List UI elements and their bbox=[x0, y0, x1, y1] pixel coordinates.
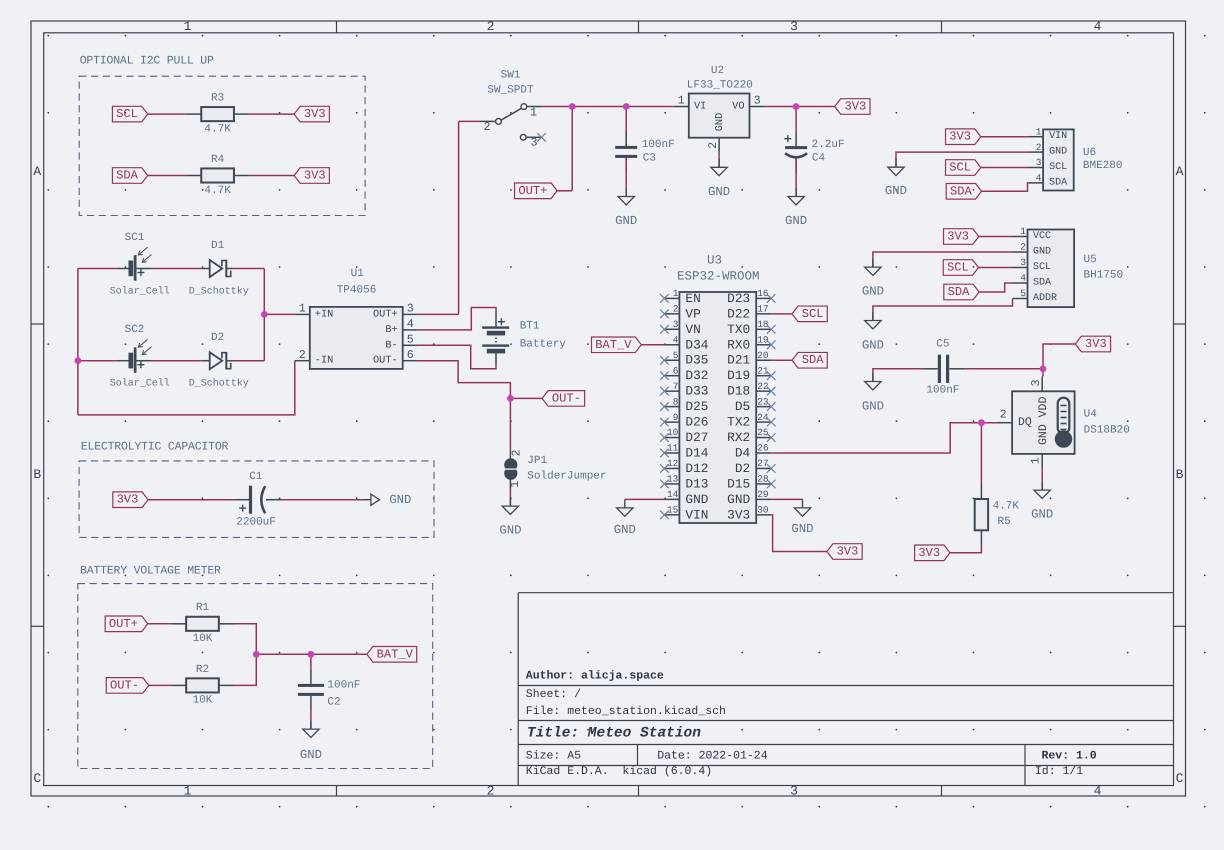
svg-text:6: 6 bbox=[673, 365, 679, 376]
svg-text:R4: R4 bbox=[211, 154, 225, 166]
svg-text:SDA: SDA bbox=[948, 285, 971, 299]
svg-text:GND: GND bbox=[785, 214, 807, 228]
svg-text:TX0: TX0 bbox=[727, 322, 750, 337]
svg-text:R3: R3 bbox=[211, 93, 224, 105]
svg-text:14: 14 bbox=[667, 489, 679, 500]
svg-text:2200uF: 2200uF bbox=[236, 516, 276, 528]
svg-text:OUT-: OUT- bbox=[552, 391, 581, 405]
svg-text:GND: GND bbox=[300, 748, 322, 762]
svg-text:5: 5 bbox=[407, 333, 414, 347]
svg-text:1: 1 bbox=[1028, 457, 1042, 464]
svg-text:100nF: 100nF bbox=[642, 139, 675, 151]
svg-text:VN: VN bbox=[685, 322, 700, 337]
svg-text:C: C bbox=[33, 771, 41, 786]
svg-text:U1: U1 bbox=[351, 268, 365, 280]
svg-text:OUT-: OUT- bbox=[373, 355, 398, 367]
svg-text:D19: D19 bbox=[727, 368, 750, 383]
svg-text:VIN: VIN bbox=[685, 507, 708, 522]
svg-text:Author: alicja.space: Author: alicja.space bbox=[526, 670, 664, 683]
svg-text:D22: D22 bbox=[727, 306, 750, 321]
svg-text:ESP32-WROOM: ESP32-WROOM bbox=[677, 270, 760, 284]
svg-text:A: A bbox=[1176, 164, 1184, 179]
svg-text:D5: D5 bbox=[735, 399, 750, 414]
svg-text:A: A bbox=[33, 164, 41, 179]
svg-text:U6: U6 bbox=[1083, 147, 1096, 159]
svg-text:B+: B+ bbox=[385, 324, 397, 336]
svg-text:C4: C4 bbox=[812, 153, 826, 165]
svg-text:B-: B- bbox=[385, 339, 397, 351]
svg-text:D_Schottky: D_Schottky bbox=[189, 378, 249, 390]
svg-text:29: 29 bbox=[757, 489, 769, 500]
svg-text:1: 1 bbox=[1036, 126, 1042, 137]
svg-text:GND: GND bbox=[614, 523, 636, 537]
svg-text:1: 1 bbox=[299, 302, 306, 316]
svg-text:GND: GND bbox=[885, 184, 907, 198]
svg-text:VP: VP bbox=[685, 306, 700, 321]
svg-text:DQ: DQ bbox=[1018, 416, 1032, 429]
svg-text:D18: D18 bbox=[727, 384, 750, 399]
svg-text:SDA: SDA bbox=[116, 169, 139, 183]
svg-text:19: 19 bbox=[757, 334, 769, 345]
svg-text:ADDR: ADDR bbox=[1033, 293, 1057, 304]
svg-text:+IN: +IN bbox=[315, 308, 334, 320]
svg-text:GND: GND bbox=[615, 214, 637, 228]
svg-text:D34: D34 bbox=[685, 337, 708, 352]
svg-text:C2: C2 bbox=[327, 696, 340, 708]
svg-text:1: 1 bbox=[508, 481, 522, 488]
svg-text:17: 17 bbox=[757, 304, 768, 315]
svg-text:30: 30 bbox=[757, 505, 769, 516]
svg-text:4: 4 bbox=[1020, 273, 1026, 284]
svg-text:VCC: VCC bbox=[1033, 231, 1051, 242]
svg-text:GND: GND bbox=[708, 185, 730, 199]
svg-text:U4: U4 bbox=[1084, 409, 1098, 421]
svg-text:5: 5 bbox=[1020, 288, 1026, 299]
svg-text:D2: D2 bbox=[211, 332, 224, 344]
svg-text:Solar_Cell: Solar_Cell bbox=[110, 286, 170, 298]
svg-text:D23: D23 bbox=[727, 291, 750, 306]
svg-text:3: 3 bbox=[1020, 257, 1026, 268]
svg-text:Solar_Cell: Solar_Cell bbox=[110, 378, 170, 390]
svg-text:Id: 1/1: Id: 1/1 bbox=[1035, 765, 1083, 778]
svg-text:100nF: 100nF bbox=[926, 385, 959, 397]
svg-text:LF33_TO220: LF33_TO220 bbox=[687, 79, 753, 91]
svg-text:U3: U3 bbox=[707, 254, 722, 268]
svg-text:GND: GND bbox=[1033, 247, 1051, 258]
svg-text:2: 2 bbox=[1036, 142, 1042, 153]
svg-text:3V3: 3V3 bbox=[844, 100, 866, 114]
svg-text:7: 7 bbox=[673, 381, 679, 392]
svg-text:VO: VO bbox=[732, 101, 744, 113]
svg-text:GND: GND bbox=[862, 399, 884, 413]
svg-text:File: meteo_station.kicad_sch: File: meteo_station.kicad_sch bbox=[526, 705, 726, 718]
svg-text:D2: D2 bbox=[735, 461, 750, 476]
svg-text:10: 10 bbox=[667, 427, 679, 438]
svg-text:RX2: RX2 bbox=[727, 430, 750, 445]
svg-text:3V3: 3V3 bbox=[304, 169, 326, 183]
svg-text:12: 12 bbox=[667, 458, 679, 469]
svg-text:2: 2 bbox=[487, 783, 495, 798]
svg-text:SDA: SDA bbox=[950, 184, 973, 198]
svg-text:OPTIONAL I2C PULL UP: OPTIONAL I2C PULL UP bbox=[80, 54, 214, 67]
svg-text:3V3: 3V3 bbox=[947, 230, 969, 244]
svg-text:4.7K: 4.7K bbox=[204, 185, 231, 197]
svg-text:20: 20 bbox=[757, 350, 769, 361]
svg-text:GND: GND bbox=[685, 492, 708, 507]
svg-text:D26: D26 bbox=[685, 415, 708, 430]
svg-text:Size: A5: Size: A5 bbox=[526, 750, 581, 763]
svg-text:SC2: SC2 bbox=[125, 324, 145, 336]
svg-text:GND: GND bbox=[499, 524, 521, 538]
svg-text:GND: GND bbox=[1031, 508, 1053, 522]
svg-text:B: B bbox=[33, 467, 41, 482]
svg-text:28: 28 bbox=[757, 474, 769, 485]
svg-text:16: 16 bbox=[757, 288, 769, 299]
svg-text:100nF: 100nF bbox=[327, 679, 360, 691]
svg-text:3V3: 3V3 bbox=[949, 130, 971, 144]
svg-text:GND: GND bbox=[727, 492, 750, 507]
svg-text:SDA: SDA bbox=[1049, 177, 1067, 188]
svg-text:SCL: SCL bbox=[1049, 162, 1067, 173]
svg-text:Rev: 1.0: Rev: 1.0 bbox=[1042, 750, 1097, 763]
svg-text:10K: 10K bbox=[193, 695, 213, 707]
svg-text:3: 3 bbox=[673, 319, 679, 330]
svg-text:BATTERY VOLTAGE METER: BATTERY VOLTAGE METER bbox=[80, 565, 221, 578]
svg-text:OUT+: OUT+ bbox=[518, 184, 547, 198]
svg-text:VIN: VIN bbox=[1049, 131, 1067, 142]
svg-text:EN: EN bbox=[685, 291, 700, 306]
svg-text:4: 4 bbox=[673, 334, 679, 345]
svg-text:C: C bbox=[1176, 771, 1184, 786]
svg-text:4: 4 bbox=[1036, 173, 1042, 184]
svg-text:OUT+: OUT+ bbox=[373, 308, 398, 320]
svg-text:D35: D35 bbox=[685, 353, 708, 368]
svg-text:4: 4 bbox=[1094, 783, 1102, 798]
svg-text:TP4056: TP4056 bbox=[337, 284, 377, 296]
svg-text:ELECTROLYTIC CAPACITOR: ELECTROLYTIC CAPACITOR bbox=[81, 441, 229, 454]
svg-text:9: 9 bbox=[673, 412, 679, 423]
svg-text:25: 25 bbox=[757, 427, 769, 438]
svg-text:SDA: SDA bbox=[1033, 278, 1051, 289]
svg-text:27: 27 bbox=[757, 458, 768, 469]
svg-text:22: 22 bbox=[757, 381, 769, 392]
svg-text:13: 13 bbox=[667, 474, 679, 485]
svg-text:Date: 2022-01-24: Date: 2022-01-24 bbox=[657, 750, 768, 763]
svg-text:18: 18 bbox=[757, 319, 769, 330]
svg-text:DS18B20: DS18B20 bbox=[1084, 424, 1130, 436]
svg-text:5: 5 bbox=[673, 350, 679, 361]
svg-text:SC1: SC1 bbox=[125, 232, 145, 244]
svg-text:BAT_V: BAT_V bbox=[595, 338, 632, 352]
svg-text:VI: VI bbox=[694, 101, 706, 113]
svg-text:2: 2 bbox=[483, 120, 490, 134]
svg-text:D_Schottky: D_Schottky bbox=[189, 286, 249, 298]
svg-text:D27: D27 bbox=[685, 430, 708, 445]
svg-text:GND: GND bbox=[714, 113, 726, 132]
svg-text:2: 2 bbox=[706, 142, 720, 149]
svg-text:2: 2 bbox=[509, 449, 523, 456]
svg-text:4.7K: 4.7K bbox=[993, 501, 1020, 513]
svg-text:2: 2 bbox=[299, 348, 306, 362]
svg-text:D4: D4 bbox=[735, 446, 751, 461]
svg-text:2: 2 bbox=[487, 19, 495, 34]
svg-text:10K: 10K bbox=[193, 633, 213, 645]
svg-text:D15: D15 bbox=[727, 476, 750, 491]
svg-text:-IN: -IN bbox=[315, 355, 334, 367]
svg-text:SCL: SCL bbox=[1033, 262, 1051, 273]
svg-text:GND: GND bbox=[389, 493, 411, 507]
svg-text:BT1: BT1 bbox=[520, 321, 540, 333]
svg-text:SDA: SDA bbox=[802, 353, 825, 367]
svg-text:15: 15 bbox=[667, 505, 679, 516]
svg-text:2: 2 bbox=[673, 304, 679, 315]
svg-text:JP1: JP1 bbox=[527, 455, 547, 467]
svg-text:11: 11 bbox=[667, 443, 679, 454]
svg-text:3: 3 bbox=[407, 302, 414, 316]
svg-text:3V3: 3V3 bbox=[837, 545, 859, 559]
svg-text:TX2: TX2 bbox=[727, 415, 750, 430]
svg-text:24: 24 bbox=[757, 412, 769, 423]
svg-text:D13: D13 bbox=[685, 476, 708, 491]
svg-text:SW_SPDT: SW_SPDT bbox=[487, 85, 534, 97]
svg-text:3: 3 bbox=[530, 135, 537, 149]
svg-text:3V3: 3V3 bbox=[304, 107, 326, 121]
svg-text:BME280: BME280 bbox=[1083, 160, 1123, 172]
svg-text:Sheet: /: Sheet: / bbox=[526, 688, 581, 701]
svg-text:SCL: SCL bbox=[947, 261, 969, 275]
svg-text:SCL: SCL bbox=[949, 161, 971, 175]
svg-text:6: 6 bbox=[407, 348, 414, 362]
svg-text:2: 2 bbox=[1000, 407, 1007, 421]
svg-text:3V3: 3V3 bbox=[727, 507, 750, 522]
svg-text:C1: C1 bbox=[249, 471, 263, 483]
svg-text:1: 1 bbox=[184, 783, 192, 798]
svg-text:C5: C5 bbox=[936, 339, 949, 351]
svg-text:KiCad E.D.A. kicad (6.0.4): KiCad E.D.A. kicad (6.0.4) bbox=[526, 765, 712, 778]
svg-text:GND: GND bbox=[791, 522, 813, 536]
svg-text:1: 1 bbox=[184, 19, 192, 34]
svg-text:GND VDD: GND VDD bbox=[1037, 397, 1050, 445]
svg-text:SCL: SCL bbox=[116, 107, 138, 121]
svg-text:4: 4 bbox=[407, 317, 414, 331]
svg-text:D32: D32 bbox=[685, 368, 708, 383]
svg-text:D21: D21 bbox=[727, 353, 750, 368]
svg-text:U5: U5 bbox=[1084, 254, 1097, 266]
svg-text:1: 1 bbox=[1020, 226, 1026, 237]
svg-text:8: 8 bbox=[673, 396, 679, 407]
svg-text:1: 1 bbox=[673, 288, 679, 299]
svg-text:2: 2 bbox=[1020, 242, 1026, 253]
svg-text:1: 1 bbox=[678, 94, 685, 108]
svg-text:3: 3 bbox=[790, 783, 798, 798]
svg-text:4: 4 bbox=[1094, 19, 1102, 34]
svg-text:Title: Meteo Station: Title: Meteo Station bbox=[527, 725, 701, 741]
svg-text:OUT+: OUT+ bbox=[109, 617, 138, 631]
svg-text:SW1: SW1 bbox=[501, 70, 521, 82]
svg-text:D33: D33 bbox=[685, 384, 708, 399]
svg-text:D1: D1 bbox=[211, 240, 225, 252]
svg-text:3V3: 3V3 bbox=[1085, 337, 1107, 351]
svg-text:R1: R1 bbox=[196, 602, 210, 614]
svg-text:SCL: SCL bbox=[802, 307, 824, 321]
svg-text:3: 3 bbox=[1036, 157, 1042, 168]
svg-text:21: 21 bbox=[757, 365, 769, 376]
svg-text:3V3: 3V3 bbox=[918, 546, 940, 560]
svg-text:3: 3 bbox=[790, 19, 798, 34]
svg-text:R5: R5 bbox=[998, 516, 1011, 528]
svg-text:GND: GND bbox=[1049, 147, 1067, 158]
svg-text:OUT-: OUT- bbox=[110, 678, 139, 692]
svg-text:BH1750: BH1750 bbox=[1084, 269, 1124, 281]
svg-text:4.7K: 4.7K bbox=[204, 123, 231, 135]
svg-text:Battery: Battery bbox=[520, 339, 567, 351]
svg-text:1: 1 bbox=[530, 106, 537, 120]
svg-text:B: B bbox=[1176, 467, 1184, 482]
svg-text:GND: GND bbox=[862, 285, 884, 299]
svg-text:D14: D14 bbox=[685, 446, 708, 461]
svg-text:3V3: 3V3 bbox=[117, 493, 139, 507]
svg-text:23: 23 bbox=[757, 396, 769, 407]
svg-text:2.2uF: 2.2uF bbox=[812, 139, 845, 151]
svg-text:R2: R2 bbox=[196, 664, 209, 676]
svg-text:RX0: RX0 bbox=[727, 337, 750, 352]
svg-text:SolderJumper: SolderJumper bbox=[527, 471, 606, 483]
svg-text:U2: U2 bbox=[711, 65, 724, 77]
svg-text:C3: C3 bbox=[643, 153, 656, 165]
svg-text:BAT_V: BAT_V bbox=[377, 647, 414, 661]
svg-text:D12: D12 bbox=[685, 461, 708, 476]
svg-text:26: 26 bbox=[757, 443, 769, 454]
svg-text:D25: D25 bbox=[685, 399, 708, 414]
svg-text:3: 3 bbox=[1029, 379, 1043, 386]
svg-text:3: 3 bbox=[754, 94, 761, 108]
svg-text:GND: GND bbox=[862, 338, 884, 352]
